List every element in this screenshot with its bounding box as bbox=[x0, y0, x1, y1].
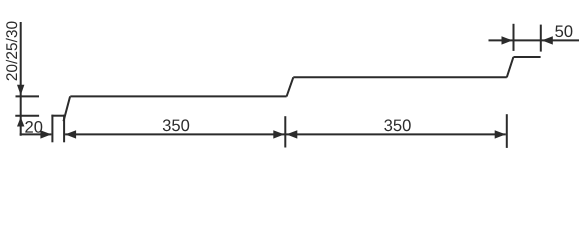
wire bottom dimension line bbox=[65, 133, 506, 135]
arrow up at lower tick bbox=[17, 117, 24, 127]
wire tick upper bbox=[16, 95, 40, 97]
wire vertical dimension leader top bbox=[20, 22, 22, 136]
arrow left at lip right bbox=[65, 130, 76, 138]
wire extension middle bbox=[284, 116, 286, 147]
label 50 bbox=[555, 25, 572, 37]
wire profile left slant bbox=[64, 96, 71, 121]
wire profile middle step slant bbox=[287, 77, 294, 96]
wire 50-dim extension right bbox=[540, 25, 542, 52]
arrow right at right ext bbox=[495, 130, 506, 138]
arrow right 50-dim left bbox=[502, 36, 513, 44]
arrow left 50-dim right bbox=[542, 36, 553, 44]
wire profile lower deck bbox=[70, 95, 286, 97]
wire profile upper deck bbox=[293, 76, 507, 78]
arrow left at middle ext bbox=[286, 130, 297, 138]
wire profile top tab bbox=[513, 56, 540, 58]
arrow down at upper tick bbox=[17, 85, 24, 96]
label 350 first bbox=[163, 119, 189, 131]
wire profile lip top bbox=[51, 115, 64, 117]
wire tick lower bbox=[15, 115, 39, 117]
arrow right at middle ext bbox=[273, 130, 284, 138]
arrow right to lip left bbox=[40, 130, 51, 138]
label 20/25/30 bbox=[6, 22, 17, 81]
label 350 second bbox=[384, 119, 410, 131]
wire profile lip left vertical bbox=[51, 115, 53, 143]
wire bottom leader horizontal bbox=[20, 133, 52, 135]
wire 50-dim extension left bbox=[513, 24, 515, 51]
wire profile lip right vertical bbox=[63, 115, 65, 143]
wire profile right step slant bbox=[507, 57, 514, 77]
wire extension right bbox=[506, 114, 508, 148]
label 20 bbox=[25, 121, 42, 133]
wire 50-dim line bbox=[489, 39, 579, 41]
